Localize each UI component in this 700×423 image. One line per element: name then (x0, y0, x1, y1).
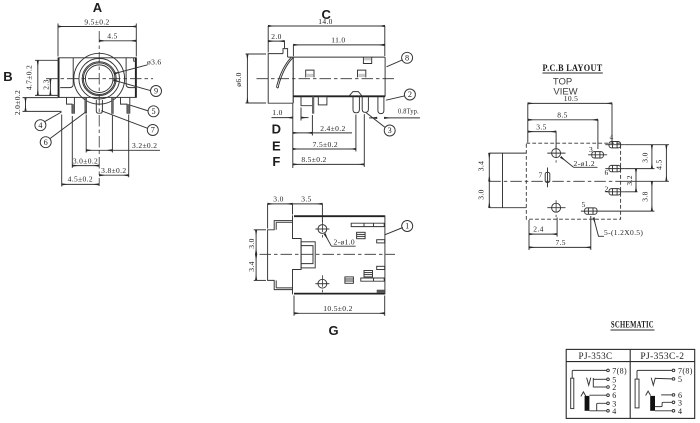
left cell: wire to 6 (589, 394, 606, 396)
svg-text:1: 1 (405, 222, 409, 231)
balloon 4 with leader (35, 112, 62, 131)
label 2-ø1.2 with leader (561, 157, 598, 168)
left ext lines pcb (489, 153, 526, 208)
svg-text:5: 5 (151, 107, 155, 116)
round pin A (353, 97, 359, 113)
left cell: sleeve bar (571, 378, 574, 408)
jack circles (74, 53, 125, 104)
vent square 2 (364, 271, 373, 277)
pad 3 (588, 145, 607, 158)
dimension 8.5 (528, 111, 598, 149)
svg-text:4: 4 (38, 121, 42, 130)
svg-text:P.C.B LAYOUT: P.C.B LAYOUT (543, 63, 603, 73)
horizontal centerline (257, 78, 397, 80)
right cell: wire to 3 (655, 402, 672, 406)
svg-text:2.0±0.2: 2.0±0.2 (13, 90, 22, 115)
svg-text:7.5: 7.5 (555, 238, 565, 247)
svg-text:6: 6 (604, 168, 608, 177)
balloon 5 with leader (130, 105, 159, 117)
right cell: terminal 6 (672, 394, 675, 397)
hole 1 (315, 221, 329, 238)
svg-text:PJ-353C-2: PJ-353C-2 (640, 351, 684, 361)
label 2-ø1.0 with leader (325, 234, 356, 246)
right cell: wire to 5 (655, 377, 672, 380)
pcb centerline (489, 180, 620, 182)
svg-text:3.0±0.2: 3.0±0.2 (73, 157, 98, 166)
bottom slot strip (361, 278, 384, 281)
left cell: wire to 7(8) (572, 370, 607, 378)
svg-text:D: D (272, 122, 281, 137)
balloon 7 with leader (101, 111, 158, 136)
right notch 1 (377, 240, 385, 243)
svg-text:E: E (272, 139, 281, 154)
right cell: V contact (651, 378, 655, 386)
vent square 3 (345, 277, 354, 283)
right cell: terminal 3 (672, 401, 675, 404)
svg-text:6: 6 (44, 138, 48, 147)
window 1 (306, 70, 314, 77)
svg-text:PJ-353C: PJ-353C (579, 351, 613, 361)
svg-text:4: 4 (678, 407, 682, 416)
svg-text:7(8): 7(8) (612, 366, 627, 375)
right ext lines pcb (601, 145, 670, 211)
body bottom edge (thick) (294, 95, 386, 97)
window 2 (358, 70, 366, 77)
body front face (292, 57, 294, 103)
balloon 2 with leader (386, 89, 415, 100)
vertical centerline (98, 31, 100, 186)
round pin C (378, 97, 384, 114)
barrel boss left (268, 221, 293, 290)
dimension 3.0 pcb left (477, 181, 490, 207)
svg-text:9.5±0.2: 9.5±0.2 (84, 18, 109, 27)
left cell: wire to 5 (593, 378, 606, 380)
balloon 1 with leader (385, 221, 413, 235)
svg-text:9: 9 (154, 87, 158, 96)
right cell: terminal 5 (672, 378, 675, 381)
pcb hole 2 (547, 200, 565, 217)
barrel (sleeve) (268, 54, 293, 104)
dimension 7.5±0.2 (293, 115, 356, 152)
dimension 3.8±0.2 (99, 166, 129, 175)
dimension 4.5 pcb (655, 145, 667, 182)
right cell: terminal 4 (672, 410, 675, 413)
svg-text:5: 5 (581, 200, 585, 209)
center pin 7 (96, 100, 102, 113)
center terminal slot (301, 242, 315, 268)
svg-text:3.8±0.2: 3.8±0.2 (101, 166, 126, 175)
svg-text:3.8: 3.8 (640, 191, 649, 201)
thin pin 5 (112, 97, 114, 113)
svg-text:3.0: 3.0 (247, 238, 256, 248)
balloon 9 with leader (114, 80, 162, 96)
label ø3.6 with leader (115, 58, 162, 74)
title P.C.B LAYOUT (543, 63, 603, 73)
left cell: terminal 5 (607, 378, 610, 381)
dimension 3.0 pcb right (640, 145, 652, 169)
svg-text:3: 3 (388, 126, 392, 135)
dimension 0.8Typ. (369, 107, 420, 118)
svg-text:2.4±0.2: 2.4±0.2 (320, 124, 345, 133)
svg-text:A: A (93, 0, 103, 15)
svg-text:2-ø1.2: 2-ø1.2 (574, 159, 595, 168)
svg-text:2: 2 (408, 90, 412, 99)
svg-text:4.7±0.2: 4.7±0.2 (25, 65, 34, 90)
dimension 2.0 (268, 32, 284, 48)
right cell: wire to 6 (661, 394, 672, 396)
svg-text:1.0: 1.0 (272, 108, 282, 117)
dimension 2.3 (41, 79, 50, 96)
right inner tab (126, 58, 136, 88)
svg-text:2-ø1.0: 2-ø1.0 (334, 237, 355, 246)
vent square 1 (357, 232, 366, 238)
dimension 3.2 pcb (625, 169, 636, 192)
dimension 3.0 left (G) (247, 230, 266, 255)
right cell: terminal 7(8) (672, 369, 675, 372)
svg-text:7.5±0.2: 7.5±0.2 (313, 140, 338, 149)
left leg 4 (67, 97, 75, 113)
svg-text:3.0: 3.0 (477, 189, 486, 199)
pad 4 (605, 133, 624, 148)
svg-text:10.5±0.2: 10.5±0.2 (323, 304, 352, 313)
svg-text:4.5: 4.5 (655, 159, 664, 169)
hole 2 (315, 275, 329, 292)
svg-text:3.4: 3.4 (477, 161, 486, 171)
left cell: wire to 4 (589, 410, 606, 412)
left cell: switch bar 5-2 (592, 378, 594, 387)
svg-text:B: B (3, 69, 12, 84)
right cell: wire to 4 (655, 410, 672, 412)
svg-text:10.5: 10.5 (564, 94, 579, 103)
pad 6 (604, 165, 624, 177)
dashed part outline (526, 143, 620, 219)
bottom right slot (377, 290, 385, 293)
right notch 2 (377, 266, 385, 269)
dimension 4.5 (99, 32, 136, 41)
top slot strip (351, 223, 384, 226)
svg-text:3.5: 3.5 (301, 195, 311, 204)
svg-text:4: 4 (609, 133, 613, 142)
barrel top step (283, 49, 288, 58)
body right edge (384, 57, 386, 96)
dimension 3.2±0.2 (86, 141, 160, 150)
svg-text:ø3.6: ø3.6 (147, 58, 162, 67)
svg-text:3.5: 3.5 (536, 122, 546, 131)
svg-text:2.3: 2.3 (41, 79, 50, 89)
top-right notch (363, 57, 371, 63)
dimension 7.5 pcb (529, 216, 591, 250)
svg-text:3.2: 3.2 (625, 175, 634, 185)
dimension 2.0±0.2 (13, 90, 62, 115)
right cell: sleeve bar (635, 379, 639, 408)
schematic table (566, 349, 695, 418)
left cell: V contact (587, 378, 591, 386)
dimension 4.5±0.2 (62, 175, 99, 185)
dimension 9.5±0.2 (58, 18, 136, 57)
leg with pin 1 (301, 97, 314, 114)
left cell: terminal 4 (607, 410, 610, 413)
dimension 11.0 (293, 36, 384, 57)
left cell: terminal 7(8) (607, 369, 610, 372)
svg-text:8.5: 8.5 (557, 111, 567, 120)
left cell: black contact bar (585, 396, 590, 411)
left cell: wire to 3 (597, 403, 607, 411)
svg-text:F: F (272, 154, 280, 169)
svg-text:ø6.0: ø6.0 (234, 72, 243, 87)
dimension 8.5±0.2 (293, 114, 365, 167)
left cell: terminal 6 (607, 394, 610, 397)
dimension 14.0 (268, 17, 385, 56)
pcb hole 1 (547, 146, 565, 163)
svg-text:2.4: 2.4 (533, 225, 543, 234)
right cell: black contact bar (650, 396, 655, 411)
dimension 1.0 (272, 108, 309, 121)
dimension 3.4 left (G) (247, 254, 266, 280)
svg-text:8: 8 (405, 54, 409, 63)
bottom latch bump (349, 92, 362, 97)
dimension 2.4±0.2 (293, 115, 352, 136)
svg-text:7: 7 (538, 171, 542, 180)
right cell: tip contact wedge (646, 391, 651, 395)
svg-text:SCHEMATIC: SCHEMATIC (611, 321, 654, 331)
svg-text:5-(1.2X0.5): 5-(1.2X0.5) (604, 228, 643, 237)
left cell: terminal 2 (607, 386, 610, 389)
pad 2 (604, 185, 624, 196)
curved spring contact (277, 57, 293, 87)
dimension 3.4 pcb (477, 153, 490, 181)
svg-text:3.2±0.2: 3.2±0.2 (132, 141, 157, 150)
svg-text:G: G (328, 323, 338, 338)
dimension ø6.0 (234, 54, 266, 103)
svg-text:3.4: 3.4 (247, 261, 256, 271)
dimension 3.5 (528, 122, 556, 148)
svg-text:5: 5 (678, 375, 682, 384)
svg-text:3.0: 3.0 (273, 195, 283, 204)
svg-text:2.0: 2.0 (271, 32, 281, 41)
horizontal centerline (46, 78, 153, 80)
svg-text:0.8Typ.: 0.8Typ. (398, 107, 419, 116)
svg-text:4.5±0.2: 4.5±0.2 (68, 175, 93, 184)
balloon 3 with leader (366, 113, 395, 136)
horizontal centerline G (260, 253, 396, 255)
dimension 10.5±0.2 (294, 296, 385, 316)
front face extension (292, 103, 294, 168)
title SCHEMATIC (611, 321, 655, 331)
small top-right step (134, 58, 137, 61)
pad 5 (581, 200, 601, 214)
mount tab (318, 97, 327, 105)
bottom extension lines (62, 115, 129, 187)
svg-text:4: 4 (612, 407, 616, 416)
left cell: tip contact wedge (581, 392, 586, 397)
right leg (121, 97, 130, 113)
body top edge (288, 56, 386, 58)
svg-text:14.0: 14.0 (318, 17, 333, 26)
svg-text:3.0: 3.0 (640, 152, 649, 162)
main body rect (293, 215, 385, 294)
dimension 2.4 pcb (529, 218, 557, 251)
label 5-(1.2X0.5) with leader (594, 218, 644, 237)
dimension 3.0 top (268, 195, 293, 229)
left cell: terminal 3 (607, 402, 610, 405)
left cell: wire to 2 (593, 386, 606, 388)
dimension 10.5 (528, 94, 612, 143)
round pin B (362, 97, 368, 113)
body outline (58, 58, 136, 98)
dimension 4.7±0.2 (25, 60, 60, 95)
svg-text:4.5: 4.5 (107, 32, 117, 41)
dimension 3.8 pcb (640, 181, 652, 211)
svg-text:8.5±0.2: 8.5±0.2 (301, 155, 326, 164)
dimension 3.0±0.2 (72, 157, 99, 166)
balloon 6 with leader (40, 112, 86, 148)
right cell: wire to 7(8) (637, 370, 672, 379)
pad 7 (538, 168, 549, 188)
svg-text:11.0: 11.0 (331, 36, 345, 45)
dimension 3.5 top (293, 195, 323, 223)
balloon 8 with leader (387, 52, 413, 67)
thin pin 6 (85, 97, 87, 113)
svg-text:7: 7 (151, 126, 155, 135)
left inner tab (60, 58, 73, 88)
